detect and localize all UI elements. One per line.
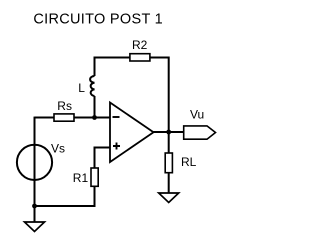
source Vs circle [17,145,52,180]
op-amp plus sign [113,143,120,150]
wire R1 bottom to bottom node [35,186,95,206]
svg-text:Vs: Vs [51,142,65,156]
op-amp minus sign [113,116,120,118]
resistor R2 [130,54,150,61]
node output junction dot [166,130,171,135]
node bottom junction dot [32,204,37,209]
wire output node down to RL and ground [168,132,170,193]
svg-text:CIRCUITO POST 1: CIRCUITO POST 1 [33,12,163,28]
wire left rail (Rs corner down through Vs to ground) [34,117,36,222]
resistor Rs [54,114,74,121]
wire Rs net (left rail top corner to op-amp inverting input) [35,117,111,119]
ground right [159,193,179,203]
inductor L coil [90,76,94,96]
svg-text:R2: R2 [132,38,148,52]
output port Vu [184,126,216,139]
svg-text:Rs: Rs [57,99,72,113]
ground left [25,222,45,232]
resistor R1 [91,168,98,186]
op-amp U1 [110,103,154,163]
wire non-inverting input to R1 [95,148,111,169]
svg-text:L: L [78,81,85,95]
resistor RL [165,153,172,173]
wire output (apex to Vu tag) [154,131,184,133]
svg-text:R1: R1 [73,171,89,185]
node A junction dot (inverting input) [92,115,97,120]
svg-text:RL: RL [181,155,197,169]
wire feedback top (node A to R2 to output node) [95,58,169,132]
wire bottom node to ground [34,206,36,222]
svg-text:Vu: Vu [190,108,204,122]
